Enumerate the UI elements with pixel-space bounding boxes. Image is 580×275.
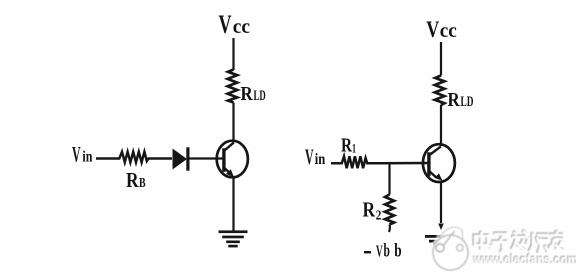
svg-text:www.elecfans.com: www.elecfans.com: [473, 252, 578, 267]
svg-text:V: V: [426, 17, 439, 42]
svg-text:R: R: [341, 135, 352, 157]
svg-text:2: 2: [376, 208, 382, 223]
svg-text:b: b: [384, 242, 390, 262]
svg-text:B: B: [139, 176, 146, 191]
svg-text:b: b: [394, 242, 401, 262]
svg-text:V: V: [219, 10, 232, 39]
svg-text:in: in: [82, 149, 92, 166]
svg-text:R: R: [126, 168, 139, 192]
svg-text:1: 1: [352, 141, 356, 156]
svg-text:R: R: [448, 89, 461, 111]
svg-text:LD: LD: [461, 94, 474, 110]
svg-text:R: R: [363, 198, 376, 222]
svg-text:in: in: [315, 151, 326, 168]
svg-text:cc: cc: [440, 20, 457, 42]
svg-text:cc: cc: [233, 16, 250, 38]
svg-text:V: V: [72, 142, 81, 167]
svg-text:LD: LD: [254, 88, 266, 104]
svg-text:V: V: [305, 144, 314, 169]
svg-text:R: R: [241, 83, 254, 105]
svg-text:V: V: [376, 242, 383, 261]
